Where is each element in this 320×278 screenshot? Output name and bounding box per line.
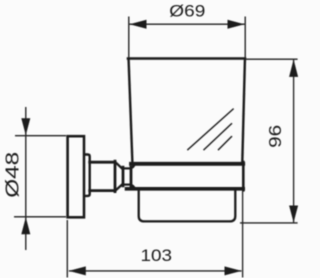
svg-text:96: 96 [265,125,285,148]
svg-text:Ø69: Ø69 [169,2,205,21]
svg-text:103: 103 [141,246,173,265]
svg-text:Ø48: Ø48 [1,152,22,198]
